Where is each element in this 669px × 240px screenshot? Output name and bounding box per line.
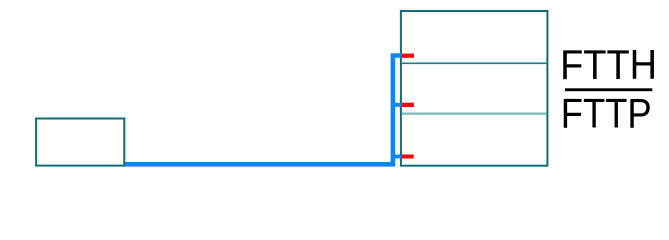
wire: floor line upper [402,62,547,64]
wire: blue stub to ground floor [395,155,402,159]
wire: blue fiber run from street cabinet to building riser [125,56,402,165]
wire: floor line lower [402,112,547,114]
svg-text:FTTP: FTTP [561,91,652,137]
wire: blue stub to middle floor [395,103,402,107]
svg-text:FTTH: FTTH [560,42,657,88]
node: red termination ground floor [401,155,413,159]
node: red termination middle floor [402,103,414,107]
node: street cabinet box [36,119,124,166]
node: building outline [401,11,548,166]
node: red termination top floor [402,54,414,58]
fraction bar [565,88,652,91]
